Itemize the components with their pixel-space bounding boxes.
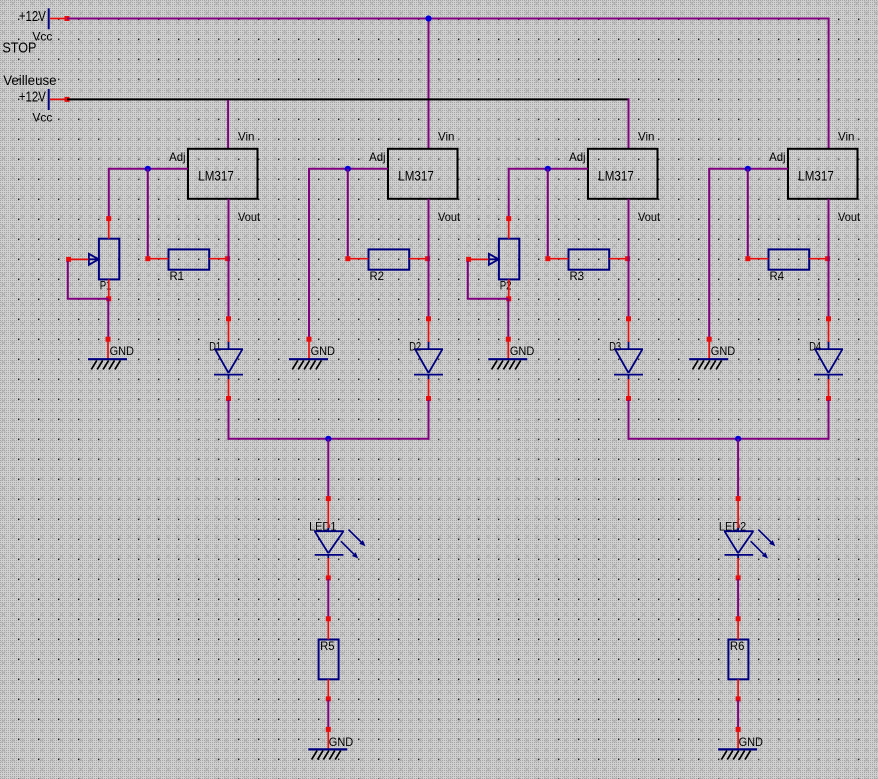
pin stub P1 bottom xyxy=(106,279,111,301)
wire +12V Veilleuse horizontal rail xyxy=(67,98,630,100)
svg-text:GND: GND xyxy=(510,344,535,358)
svg-text:LM317: LM317 xyxy=(598,168,634,184)
pin stub R1 left xyxy=(145,256,168,261)
pin stub LED1 anode xyxy=(326,496,331,528)
ground GND3 xyxy=(488,337,534,370)
wire STOP rail drop to U4 Vin xyxy=(828,18,830,149)
potentiometer P2 xyxy=(489,239,519,293)
svg-text:Vin: Vin xyxy=(638,129,655,143)
ground GND1 xyxy=(88,337,134,370)
wire Vout U2 down to D2 xyxy=(428,199,430,317)
pin stub R3 left xyxy=(545,256,568,261)
wire pot wiper loop xyxy=(467,261,509,299)
svg-text:D1: D1 xyxy=(209,340,221,354)
junction Adj U4 xyxy=(745,166,751,172)
svg-text:Vout: Vout xyxy=(838,210,861,224)
wire +12V STOP horizontal rail xyxy=(67,18,830,20)
svg-text:GND: GND xyxy=(311,344,336,358)
svg-text:Vin: Vin xyxy=(238,129,255,143)
pin stub R3 right xyxy=(609,256,630,261)
pin stub R5 top xyxy=(326,616,331,639)
wire LED cathode to resistor xyxy=(327,579,329,620)
resistor R6 xyxy=(728,639,748,680)
wire resistor to ground xyxy=(737,700,739,729)
pin stub P2 top xyxy=(506,216,511,239)
junction bus right / LED2 xyxy=(735,436,741,442)
svg-text:D2: D2 xyxy=(409,340,421,354)
svg-text:R1: R1 xyxy=(170,269,185,283)
pin stub R6 top xyxy=(736,616,741,639)
wire Adj junction to R2 left xyxy=(347,169,349,257)
svg-text:D4: D4 xyxy=(809,340,821,354)
wire bus right down to LED2 xyxy=(737,439,739,497)
junction Adj U2 xyxy=(345,166,351,172)
wire D2 cathode down to bus xyxy=(428,400,430,440)
+12V Vcc power symbol (Veilleuse net) xyxy=(19,89,70,124)
+12V Vcc power symbol (STOP net) xyxy=(19,8,70,43)
svg-text:LM317: LM317 xyxy=(398,168,434,184)
wire Adj U3 down to P top xyxy=(508,169,510,217)
svg-text:GND: GND xyxy=(711,344,736,358)
ground GND5 xyxy=(308,727,353,760)
wire Adj junction to R1 left xyxy=(147,169,149,257)
wire Adj U4 down to ground xyxy=(708,169,710,338)
svg-text:D3: D3 xyxy=(609,340,621,354)
wire Vout U1 down to D1 xyxy=(228,199,230,317)
wire pot bottom to ground xyxy=(507,299,509,338)
svg-text:R3: R3 xyxy=(570,269,585,283)
svg-text:Adj: Adj xyxy=(369,150,386,164)
pin stub P1 top xyxy=(106,216,111,239)
svg-text:Adj: Adj xyxy=(569,150,586,164)
wire Adj U4 horizontal xyxy=(708,168,788,170)
wire Adj junction to R4 left xyxy=(747,169,749,257)
wire D1 cathode down to bus xyxy=(228,400,230,440)
svg-text:+12V: +12V xyxy=(19,9,46,25)
wire pot wiper loop xyxy=(67,261,109,299)
resistor R4 xyxy=(769,249,810,283)
wire Vout U3 down to D3 xyxy=(628,199,630,317)
pin stub R2 left xyxy=(345,256,368,261)
pin stub D2 cathode xyxy=(426,379,431,401)
svg-text:Vout: Vout xyxy=(438,210,461,224)
wire Adj U2 horizontal xyxy=(308,168,388,170)
wire D4 cathode down to bus xyxy=(828,400,830,440)
wire Vout U4 down to D4 xyxy=(828,199,830,317)
junction STOP rail / U2 Vin xyxy=(425,15,431,21)
ground GND2 xyxy=(289,337,335,370)
pin stub D4 anode xyxy=(826,316,831,342)
svg-text:Vin: Vin xyxy=(438,129,455,143)
svg-text:Vout: Vout xyxy=(638,210,661,224)
pin stub D3 anode xyxy=(626,316,631,342)
pin stub R6 bottom xyxy=(736,679,741,701)
wire output bus left (D1-D2) xyxy=(228,438,430,440)
svg-text:LM317: LM317 xyxy=(798,168,834,184)
LED LED1 xyxy=(309,519,365,559)
resistor R3 xyxy=(569,249,610,283)
svg-text:Veilleuse: Veilleuse xyxy=(3,72,57,88)
resistor R2 xyxy=(369,249,410,283)
wire STOP rail drop to U2 Vin xyxy=(428,18,430,149)
wire Adj U2 down to ground xyxy=(308,169,310,338)
wire bus left down to LED1 xyxy=(327,439,329,497)
pin stub LED2 cathode xyxy=(736,558,741,580)
diode D1 xyxy=(209,340,243,380)
pin stub D4 cathode xyxy=(826,379,831,401)
pin stub P2 wiper xyxy=(466,257,488,262)
wire Veilleuse rail drop to U1 Vin xyxy=(227,100,229,149)
pin stub D3 cathode xyxy=(626,379,631,401)
svg-text:R4: R4 xyxy=(770,269,785,283)
svg-text:Adj: Adj xyxy=(169,150,186,164)
svg-text:GND: GND xyxy=(739,735,764,749)
svg-text:Adj: Adj xyxy=(769,150,786,164)
pin stub LED1 cathode xyxy=(326,558,331,580)
svg-text:Vcc: Vcc xyxy=(32,110,52,124)
svg-text:Vout: Vout xyxy=(238,210,261,224)
resistor R5 xyxy=(319,639,339,680)
svg-text:R5: R5 xyxy=(320,639,335,653)
wire Adj U3 horizontal xyxy=(508,168,588,170)
svg-text:P2: P2 xyxy=(500,279,512,293)
wire Veilleuse rail drop to U3 Vin xyxy=(628,98,630,148)
wire LED cathode to resistor xyxy=(737,579,739,620)
pin stub R4 left xyxy=(745,256,768,261)
wire resistor to ground xyxy=(327,700,329,729)
wire pot bottom to ground xyxy=(107,299,109,338)
ground GND4 xyxy=(689,337,735,370)
regulator U3 LM317 xyxy=(588,149,658,199)
pin stub LED2 anode xyxy=(736,496,741,528)
junction Adj U1 xyxy=(145,166,151,172)
LED LED2 xyxy=(719,519,775,559)
pin stub P2 bottom xyxy=(506,279,511,301)
svg-text:GND: GND xyxy=(110,344,135,358)
junction Adj U3 xyxy=(545,166,551,172)
svg-text:R6: R6 xyxy=(730,639,745,653)
svg-text:Vin: Vin xyxy=(838,129,855,143)
pin stub P1 wiper xyxy=(66,257,88,262)
diode D3 xyxy=(609,340,643,380)
diode D4 xyxy=(809,340,843,380)
pin stub D1 anode xyxy=(226,316,231,342)
svg-text:R2: R2 xyxy=(370,269,385,283)
svg-text:GND: GND xyxy=(329,735,354,749)
regulator U2 LM317 xyxy=(388,149,458,199)
pin stub D2 anode xyxy=(426,316,431,342)
ground GND6 xyxy=(718,727,763,760)
wire Adj junction to R3 left xyxy=(547,169,549,257)
svg-text:STOP: STOP xyxy=(2,40,36,57)
wire Adj U1 horizontal xyxy=(108,168,188,170)
svg-text:P1: P1 xyxy=(100,279,112,293)
wire Adj U1 down to P top xyxy=(108,169,110,217)
svg-text:LM317: LM317 xyxy=(198,168,234,184)
resistor R1 xyxy=(169,249,210,283)
svg-text:+12V: +12V xyxy=(19,90,46,106)
wire D3 cathode down to bus xyxy=(628,400,630,440)
regulator U4 LM317 xyxy=(788,149,858,199)
pin stub R2 right xyxy=(409,256,430,261)
junction bus left / LED1 xyxy=(325,436,331,442)
pin stub D1 cathode xyxy=(226,379,231,401)
regulator U1 LM317 xyxy=(188,149,258,199)
diode D2 xyxy=(409,340,443,380)
pin stub R4 right xyxy=(809,256,830,261)
pin stub R1 right xyxy=(209,256,230,261)
pin stub R5 bottom xyxy=(326,679,331,701)
potentiometer P1 xyxy=(89,239,119,293)
wire output bus right (D3-D4) xyxy=(628,438,830,440)
